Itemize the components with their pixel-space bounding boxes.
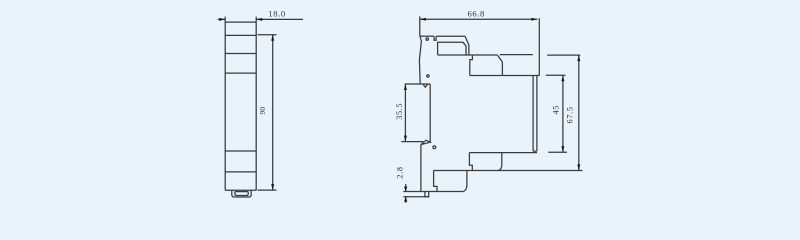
svg-text:90: 90 — [258, 107, 267, 115]
svg-text:66.8: 66.8 — [467, 8, 484, 18]
svg-text:2.8: 2.8 — [395, 166, 404, 178]
svg-text:18.0: 18.0 — [268, 8, 285, 18]
svg-text:35.5: 35.5 — [395, 103, 404, 120]
svg-text:45: 45 — [552, 105, 561, 115]
svg-text:67.5: 67.5 — [566, 106, 575, 123]
